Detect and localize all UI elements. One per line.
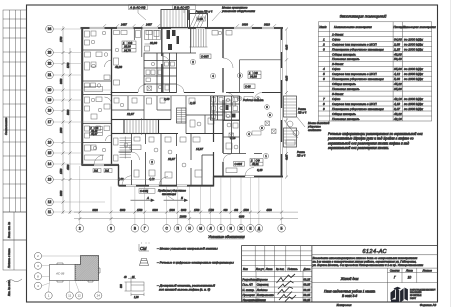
svg-text:Гл.с. АП: Гл.с. АП	[242, 283, 252, 287]
svg-text:35,36: 35,36	[394, 67, 402, 71]
svg-text:Жилой дом: Жилой дом	[340, 277, 359, 281]
svg-text:8: 8	[323, 102, 325, 106]
svg-text:Подпись и дата: Подпись и дата	[7, 248, 11, 268]
svg-text:3000: 3000	[60, 190, 63, 196]
right side dim chain	[286, 29, 288, 177]
left grid bubbles	[46, 25, 54, 216]
svg-text:2-Этаж: 2-Этаж	[331, 62, 344, 66]
svg-text:6: 6	[323, 77, 325, 81]
svg-text:6124-АС: 6124-АС	[362, 249, 387, 255]
svg-text:Место Выходной: Место Выходной	[308, 121, 330, 125]
svg-text:до 2000 МДж: до 2000 МДж	[404, 77, 424, 81]
svg-text:4: 4	[323, 67, 325, 71]
bottom chain ticks	[78, 211, 283, 221]
svg-text:2: 2	[79, 227, 81, 231]
svg-text:48,22: 48,22	[394, 112, 402, 116]
svg-text:2497: 2497	[120, 23, 127, 27]
svg-text:40,91: 40,91	[252, 162, 259, 166]
svg-text:1500: 1500	[194, 209, 200, 212]
top note text	[221, 6, 256, 13]
svg-text:Речевые информаторы размещаютс: Речевые информаторы размещаются по верти…	[328, 132, 423, 136]
svg-text:460: 460	[234, 209, 239, 212]
circled room numbers	[149, 73, 268, 165]
organization text	[410, 288, 436, 299]
svg-text:инвентаря: инвентаря	[162, 193, 176, 196]
svg-text:– Место установки стиральной м: – Место установки стиральной машины	[156, 246, 218, 250]
second stair flight	[177, 108, 187, 123]
svg-text:3610: 3610	[264, 23, 270, 27]
legend item washing machine	[139, 243, 149, 252]
svg-text:2980: 2980	[60, 127, 63, 134]
svg-text:Стадия: Стадия	[390, 268, 400, 272]
lower-left fixtures	[114, 137, 203, 178]
core fixtures	[146, 62, 175, 90]
svg-text:4,18: 4,18	[394, 102, 400, 106]
svg-text:1500: 1500	[243, 209, 249, 212]
svg-text:21: 21	[48, 73, 52, 77]
svg-text:Листов: Листов	[421, 268, 432, 272]
svg-text:Г: Г	[144, 227, 146, 231]
svg-text:вертикальной оси размещения кн: вертикальной оси размещения кнопки.	[328, 146, 389, 150]
title block names	[242, 277, 310, 302]
top callout flag B	[173, 5, 196, 14]
svg-text:12: 12	[78, 294, 82, 298]
lower vertical stair	[120, 137, 132, 159]
corridor threshold marks	[247, 97, 276, 137]
svg-text:М: М	[199, 227, 202, 231]
svg-text:4500: 4500	[67, 164, 70, 170]
svg-text:1700: 1700	[209, 209, 215, 212]
svg-text:Мишин: Мишин	[257, 298, 266, 302]
svg-text:5700: 5700	[67, 62, 70, 68]
wing door arc	[94, 155, 104, 165]
svg-text:35,36: 35,36	[394, 87, 402, 91]
left chain numbers	[60, 36, 70, 196]
sanitary core block	[144, 53, 177, 93]
left dim chains	[63, 26, 70, 214]
top shaft 2 ramp	[190, 14, 208, 28]
svg-text:14: 14	[48, 162, 52, 166]
svg-text:1900: 1900	[169, 209, 175, 212]
strip extra fixtures	[91, 31, 112, 152]
svg-text:Офис: Офис	[332, 97, 341, 101]
svg-text:16: 16	[48, 141, 52, 145]
svg-text:2497: 2497	[145, 23, 152, 27]
circled tags along corridor	[237, 96, 242, 101]
step between sections	[213, 177, 215, 187]
section divider wall	[213, 96, 215, 177]
svg-text:25,08: 25,08	[123, 45, 131, 49]
svg-text:2х1: 2х1	[104, 170, 110, 173]
entrance 2 steps	[284, 128, 297, 147]
svg-text:Лебедев: Лебедев	[256, 288, 268, 292]
svg-text:34,93: 34,93	[394, 37, 402, 41]
legend item detail sketch	[125, 277, 145, 297]
mid partition above corridor	[177, 28, 197, 53]
svg-text:№п/п: №п/п	[319, 25, 327, 29]
key plan connectors	[42, 256, 99, 292]
title block outline	[242, 246, 438, 302]
left axis leaders	[53, 29, 160, 212]
svg-text:09.25: 09.25	[303, 277, 310, 281]
svg-text:12,97: 12,97	[127, 112, 134, 116]
svg-text:4,12: 4,12	[149, 177, 155, 181]
svg-text:3600: 3600	[92, 209, 98, 212]
svg-text:Наименование помещения: Наименование помещения	[334, 25, 372, 29]
svg-text:Санузел для персонала с МОП: Санузел для персонала с МОП	[332, 102, 377, 106]
room tag box 3	[250, 159, 263, 166]
svg-text:09.25: 09.25	[303, 288, 310, 292]
svg-text:22: 22	[48, 62, 52, 66]
right section fixtures	[226, 100, 238, 149]
exterior bottom-left wing wall	[81, 164, 119, 166]
svg-text:20: 20	[48, 88, 52, 92]
room tag box 2	[248, 71, 261, 78]
corridor lower small rooms	[112, 96, 224, 134]
svg-text:Ж: Ж	[240, 227, 243, 231]
svg-text:43,88: 43,88	[115, 65, 122, 69]
svg-text:Г: Г	[394, 276, 396, 280]
svg-text:ВОЛГОГРАДСКИЙ ИНСТИТУТ: ВОЛГОГРАДСКИЙ ИНСТИТУТ	[410, 288, 436, 291]
left margin lower boxes	[3, 212, 27, 270]
key plan notches	[57, 263, 100, 282]
svg-text:4,12: 4,12	[394, 72, 400, 76]
svg-text:РАБОТ: РАБОТ	[410, 297, 417, 300]
svg-text:Лист: Лист	[265, 267, 274, 271]
svg-text:16,97: 16,97	[168, 157, 175, 161]
svg-text:В: В	[134, 227, 136, 231]
svg-text:Л: Л	[210, 227, 212, 231]
bottom grid bubbles	[76, 225, 285, 233]
svg-text:А: А	[146, 196, 149, 200]
svg-text:до 2000 МДж: до 2000 МДж	[404, 102, 424, 106]
svg-text:С-06Л: С-06Л	[235, 162, 243, 166]
left margin approval strip	[3, 10, 27, 212]
bottom dim chains	[74, 211, 298, 213]
small boxed label left room	[234, 162, 245, 167]
svg-text:4550: 4550	[266, 209, 272, 212]
svg-text:Рампа: Рампа	[297, 150, 305, 154]
circled 2 near spine	[190, 59, 195, 64]
svg-text:56,43: 56,43	[394, 57, 402, 61]
svg-text:5980: 5980	[67, 109, 70, 115]
wardrobe grid	[145, 31, 161, 52]
svg-text:900: 900	[224, 209, 229, 212]
table header text	[319, 25, 436, 29]
svg-text:ул. Бориса Могила, 4-м проездо: ул. Бориса Могила, 4-м проездом Универси…	[312, 263, 424, 267]
scattered area texts	[115, 41, 263, 181]
svg-text:30,98: 30,98	[150, 41, 157, 45]
svg-text:В осях 3-6: В осях 3-6	[342, 294, 357, 298]
svg-text:9: 9	[323, 107, 325, 111]
small boxed labels right section	[252, 131, 261, 135]
svg-text:ПВ и Ч: ПВ и Ч	[298, 110, 306, 114]
svg-text:Б: Б	[181, 196, 183, 200]
top-left room furniture	[114, 31, 233, 86]
legend item informer	[140, 259, 149, 266]
svg-text:42,16: 42,16	[394, 97, 402, 101]
svg-text:18: 18	[48, 109, 52, 113]
svg-text:2700: 2700	[60, 36, 63, 43]
svg-text:Лист: Лист	[405, 268, 414, 272]
svg-text:34,93: 34,93	[250, 75, 257, 79]
svg-text:Приёмная уборочного: Приёмная уборочного	[158, 189, 186, 193]
svg-text:Изм: Изм	[243, 267, 248, 271]
svg-text:Морозов: Морозов	[257, 277, 268, 281]
wing step connector	[118, 165, 120, 186]
svg-text:Стрелец: Стрелец	[257, 283, 269, 287]
exterior right wall	[281, 28, 283, 177]
svg-text:12: 12	[48, 200, 52, 204]
outer strip room dividers	[83, 50, 112, 143]
svg-text:Полезная площадь: Полезная площадь	[332, 117, 360, 121]
svg-text:С-06: С-06	[245, 85, 251, 89]
washing machine symbols in plan	[147, 86, 234, 138]
title block revision grid	[242, 246, 312, 302]
svg-text:Помещение уборочного инвентаря: Помещение уборочного инвентаря	[332, 47, 384, 51]
svg-text:ИЗЫСКАНИЯ: ИЗЫСКАНИЯ	[410, 291, 422, 294]
svg-text:1500: 1500	[60, 168, 63, 174]
small boxed label top rooms	[200, 54, 211, 59]
svg-text:3000: 3000	[152, 209, 158, 212]
svg-text:3: 3	[110, 227, 112, 231]
svg-text:2: 2	[322, 42, 325, 46]
svg-text:К: К	[220, 227, 222, 231]
room schedule table grid	[318, 22, 431, 121]
mid stair	[124, 120, 159, 134]
top wall window lines	[81, 27, 284, 29]
svg-text:2х1: 2х1	[93, 170, 99, 173]
svg-text:установки оборудования: установки оборудования	[221, 9, 256, 13]
svg-text:Экспликация помещений: Экспликация помещений	[340, 14, 388, 19]
exterior bottom wall right section	[214, 176, 284, 178]
svg-text:Согласование: Согласование	[4, 117, 8, 135]
right side rotated dims	[286, 44, 289, 160]
svg-text:Рампа ПВ и Ч: Рампа ПВ и Ч	[196, 10, 213, 14]
signatures	[277, 274, 297, 302]
svg-text:до 2000 МДж: до 2000 МДж	[404, 72, 424, 76]
interior wall B vertical	[222, 28, 224, 176]
svg-text:Категория помещения: Категория помещения	[403, 25, 436, 29]
svg-text:Санузел для персонала с МОП: Санузел для персонала с МОП	[332, 42, 377, 46]
svg-text:4х23: 4х23	[286, 75, 289, 81]
svg-text:15: 15	[48, 151, 52, 155]
svg-text:Общая площадь: Общая площадь	[332, 112, 356, 116]
svg-text:С-06П: С-06П	[201, 55, 209, 59]
shaft dark fills	[167, 30, 180, 50]
stage cells	[312, 268, 438, 302]
stair descend from top shaft	[190, 29, 208, 47]
svg-text:Н. контр.: Н. контр.	[242, 288, 254, 292]
svg-text:6280: 6280	[239, 216, 245, 219]
key plan building outline	[50, 265, 76, 281]
svg-text:3,07: 3,07	[394, 107, 400, 111]
svg-text:вертикальной оси размещения кн: вертикальной оси размещения кнопки лифта…	[328, 141, 409, 145]
section cut arrows	[131, 199, 188, 202]
svg-text:1,20: 1,20	[134, 297, 139, 299]
exterior bottom wall left section	[119, 185, 214, 187]
svg-text:45,22: 45,22	[394, 82, 402, 86]
svg-text:Помещение уборочного инвентаря: Помещение уборочного инвентаря	[332, 107, 384, 111]
svg-text:09.25: 09.25	[303, 298, 310, 302]
corridor lower walls	[112, 120, 224, 134]
paper edge	[450, 0, 452, 307]
svg-text:Полезная площадь: Полезная площадь	[332, 57, 360, 61]
top callout flag A	[129, 5, 148, 21]
svg-text:6,28: 6,28	[257, 168, 263, 172]
svg-text:09.25: 09.25	[303, 283, 310, 287]
svg-text:ПВ и Ч: ПВ и Ч	[297, 153, 305, 157]
svg-text:7: 7	[323, 97, 325, 101]
svg-text:4х23: 4х23	[286, 154, 289, 160]
svg-text:до 2000 МДж: до 2000 МДж	[404, 42, 424, 46]
svg-text:Б (с АС-07): Б (с АС-07)	[174, 5, 189, 9]
svg-text:24: 24	[48, 27, 52, 31]
corridor wall upper	[111, 92, 281, 94]
svg-text:45,07: 45,07	[91, 133, 98, 136]
svg-text:11: 11	[68, 294, 71, 298]
svg-text:под кнопкой вызова лифта (п. п: под кнопкой вызова лифта (п. п. 8)	[159, 287, 210, 291]
svg-text:Копировал: Копировал	[337, 303, 352, 307]
project description	[312, 256, 424, 267]
svg-text:– Речевые и цифровые электронн: – Речевые и цифровые электронные информа…	[156, 260, 234, 264]
svg-text:снабжение: снабжение	[308, 128, 322, 132]
svg-text:СМ: СМ	[140, 246, 147, 251]
svg-text:расположенные Шрифт руки и над: расположенные Шрифт руки и над Брайля в …	[327, 137, 414, 141]
svg-text:24: 24	[97, 294, 101, 298]
door arcs	[122, 56, 262, 186]
svg-text:уборочное: уборочное	[307, 124, 321, 128]
svg-text:Б: Б	[281, 227, 283, 231]
bottom axis leaders	[80, 166, 282, 225]
svg-text:№ док.: № док.	[276, 267, 285, 271]
svg-text:Инв. № подл.: Инв. № подл.	[7, 280, 11, 296]
svg-text:до 2000 МДж: до 2000 МДж	[404, 37, 424, 41]
svg-text:19: 19	[48, 98, 52, 102]
small boxed labels under wing wall	[93, 169, 101, 173]
interior wall strip divider	[111, 28, 113, 165]
svg-text:24,76: 24,76	[123, 48, 131, 52]
right section partitions	[223, 96, 262, 154]
svg-text:Е: Е	[249, 227, 251, 231]
svg-text:С-06Щ: С-06Щ	[140, 189, 149, 193]
svg-text:1-Этаж: 1-Этаж	[332, 32, 344, 36]
svg-text:23: 23	[48, 51, 52, 55]
svg-text:3000: 3000	[60, 78, 63, 84]
svg-text:42,16: 42,16	[394, 117, 402, 121]
svg-text:Помещение уборочного инвентаря: Помещение уборочного инвентаря	[332, 77, 384, 81]
svg-text:2,15: 2,15	[189, 101, 196, 105]
title block header texts	[243, 267, 311, 271]
svg-text:09.25: 09.25	[303, 293, 310, 297]
interior wall A vertical	[161, 28, 163, 93]
svg-text:3-Этаж: 3-Этаж	[332, 92, 344, 96]
svg-text:Общая площадь: Общая площадь	[332, 52, 356, 56]
svg-text:Общая площадь: Общая площадь	[332, 82, 356, 86]
svg-text:3600: 3600	[242, 23, 248, 27]
svg-text:Полезная площадь: Полезная площадь	[332, 87, 360, 91]
svg-text:Кол.уч: Кол.уч	[256, 267, 264, 271]
svg-text:10: 10	[408, 276, 412, 280]
key plan bottom circles	[45, 292, 102, 299]
interior wall right room divider	[240, 59, 281, 61]
svg-text:3900: 3900	[181, 209, 187, 212]
svg-text:2,15: 2,15	[393, 47, 400, 51]
svg-text:АС-06: АС-06	[55, 272, 65, 276]
svg-text:14,97: 14,97	[196, 147, 203, 151]
strip room tag box	[89, 127, 102, 136]
svg-text:13: 13	[48, 178, 52, 182]
outer strip fixtures	[85, 31, 103, 160]
svg-text:Кондратенко: Кондратенко	[257, 293, 275, 297]
svg-text:3000: 3000	[120, 209, 126, 212]
svg-text:до 2000 МДж: до 2000 МДж	[404, 67, 424, 71]
svg-text:3: 3	[323, 47, 325, 51]
lower-left partitions	[119, 134, 214, 186]
svg-text:Формат А3: Формат А3	[420, 303, 437, 307]
svg-text:Взам. инв. №: Взам. инв. №	[7, 222, 11, 238]
top wall dim ticks	[103, 24, 276, 27]
entrance steps right	[284, 96, 297, 117]
svg-text:Дата: Дата	[303, 267, 311, 271]
svg-text:43,98: 43,98	[394, 52, 402, 56]
svg-text:5,63: 5,63	[118, 177, 124, 181]
bottom chain numbers	[92, 209, 272, 219]
svg-text:Утвержден: Утвержден	[242, 298, 257, 302]
svg-text:1500: 1500	[137, 209, 143, 212]
svg-text:2,88: 2,88	[163, 97, 170, 101]
svg-text:5: 5	[323, 72, 325, 76]
svg-text:А (с АС-06): А (с АС-06)	[129, 5, 146, 9]
svg-text:2,88: 2,88	[393, 42, 400, 46]
svg-text:до 2000 МДж: до 2000 МДж	[404, 107, 424, 111]
shaft label box	[197, 17, 206, 21]
handwritten mark	[6, 279, 22, 282]
entrance ramp marks	[284, 117, 305, 145]
organization logo	[391, 287, 408, 303]
svg-text:Условные обозначения: Условные обозначения	[208, 235, 245, 239]
entrance callout texts	[297, 107, 330, 157]
svg-text:до 2000 МДж: до 2000 МДж	[404, 97, 424, 101]
svg-text:Санузел для персонала с МОП: Санузел для персонала с МОП	[332, 72, 377, 76]
top stair shaft	[161, 10, 188, 28]
interior partition top-left	[141, 28, 143, 57]
svg-text:Проверил: Проверил	[242, 293, 255, 297]
exterior left wall	[81, 28, 83, 165]
svg-text:4х23: 4х23	[286, 44, 289, 50]
bathroom cluster B below corridor	[211, 96, 240, 120]
svg-text:План отделочных работ 1 этажа: План отделочных работ 1 этажа	[324, 289, 375, 293]
svg-text:Рабочая отдыха: Рабочая отдыха	[243, 98, 264, 102]
svg-text:ПРОЕКТНЫЕ: ПРОЕКТНЫЕ	[410, 295, 422, 297]
notes paragraph	[327, 132, 423, 150]
callout below building	[158, 189, 186, 196]
svg-text:11: 11	[48, 210, 52, 214]
svg-text:1: 1	[323, 37, 325, 41]
table body text	[322, 32, 424, 120]
svg-text:17: 17	[48, 120, 52, 124]
svg-text:Подпись: Подпись	[288, 267, 299, 271]
svg-text:С-06: С-06	[198, 18, 204, 21]
svg-text:3,15: 3,15	[230, 136, 236, 140]
svg-text:до 2000 МДж: до 2000 МДж	[404, 47, 424, 51]
svg-text:Офис: Офис	[332, 67, 341, 71]
left chain ticks	[62, 28, 72, 214]
svg-text:Рампа: Рампа	[298, 107, 306, 111]
dim text above top wall	[120, 23, 270, 27]
svg-text:13800: 13800	[180, 215, 187, 218]
svg-text:5,63: 5,63	[394, 77, 400, 81]
